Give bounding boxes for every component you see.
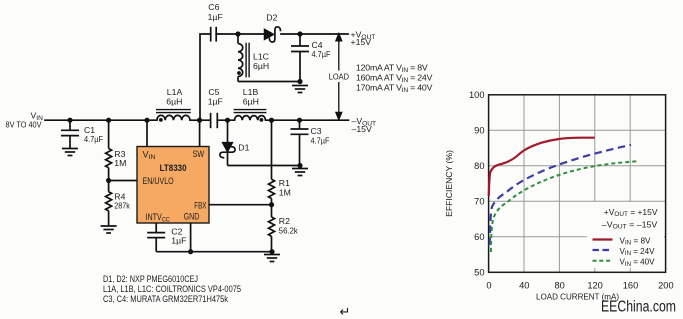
svg-text:FBX: FBX xyxy=(194,200,206,210)
node junction D1 top xyxy=(225,118,230,123)
capacitor C4 xyxy=(291,34,309,82)
svg-text:100: 100 xyxy=(469,90,485,100)
resistor R4 xyxy=(106,181,112,226)
svg-text:60: 60 xyxy=(474,232,484,242)
LOAD arrow xyxy=(336,34,342,120)
svg-text:↵: ↵ xyxy=(340,304,351,319)
svg-text:C6: C6 xyxy=(208,2,219,12)
svg-text:0: 0 xyxy=(486,281,491,291)
svg-text:200: 200 xyxy=(658,281,674,291)
svg-text:VIN = 40V: VIN = 40V xyxy=(620,258,656,268)
chart gridlines xyxy=(489,95,666,272)
wire bottom ground rail xyxy=(156,251,272,253)
node junction R3/R4/EN xyxy=(106,178,111,183)
wire EN/UVLO xyxy=(109,180,137,182)
svg-text:L1A, L1B, L1C: COILTRONICS VP4: L1A, L1B, L1C: COILTRONICS VP4-0075 xyxy=(103,284,241,294)
wire main rail C5 to L1B xyxy=(217,119,234,121)
resistor R3 xyxy=(106,120,112,180)
svg-text:50: 50 xyxy=(474,268,484,278)
node junction FBX xyxy=(269,202,274,207)
svg-text:LT8330: LT8330 xyxy=(160,163,187,173)
ground (C1) xyxy=(62,149,78,156)
svg-text:EN/UVLO: EN/UVLO xyxy=(143,176,174,186)
node junction VIN pin xyxy=(144,118,149,123)
svg-text:90: 90 xyxy=(474,126,484,136)
node junction R1 top xyxy=(269,118,274,123)
svg-text:287k: 287k xyxy=(114,201,130,211)
svg-text:4.7µF: 4.7µF xyxy=(84,134,103,144)
node junction GND pin xyxy=(188,249,193,254)
wire VIN pin riser xyxy=(146,120,148,146)
svg-text:4.7µF: 4.7µF xyxy=(312,49,331,59)
svg-text:8V TO 40V: 8V TO 40V xyxy=(6,120,42,130)
wire main rail VIN to L1A xyxy=(45,119,157,121)
capacitor C2 xyxy=(147,223,165,252)
svg-text:56.2k: 56.2k xyxy=(279,225,299,235)
svg-text:160: 160 xyxy=(623,281,639,291)
svg-text:+15V: +15V xyxy=(351,37,372,47)
ground (C4/L1C) xyxy=(292,86,308,93)
node junction R3 top xyxy=(106,118,111,123)
wire D1 cathode to ground rail xyxy=(228,165,301,167)
ground (R4) xyxy=(101,226,117,233)
node junction C3 bottom xyxy=(297,163,302,168)
svg-text:EEChina.com: EEChina.com xyxy=(601,299,676,316)
svg-text:40: 40 xyxy=(519,281,529,291)
curve VIN=40V (green dashed) xyxy=(491,161,639,252)
load current annotations xyxy=(356,62,433,94)
svg-text:GND: GND xyxy=(184,211,200,221)
svg-text:L1C: L1C xyxy=(253,52,269,62)
wire L1C bottom to ground xyxy=(238,81,300,83)
svg-text:1M: 1M xyxy=(279,188,291,198)
svg-text:L1A: L1A xyxy=(167,87,183,97)
curve VIN=8V (red) xyxy=(489,138,595,196)
svg-text:D1: D1 xyxy=(238,143,249,153)
curve VIN=24V (blue dashed) xyxy=(490,145,631,245)
svg-text:1µF: 1µF xyxy=(208,12,223,22)
node junction C3 top xyxy=(297,118,302,123)
svg-text:4.7µF: 4.7µF xyxy=(311,135,330,145)
svg-text:VIN = 24V: VIN = 24V xyxy=(620,247,656,257)
svg-text:6µH: 6µH xyxy=(253,61,269,71)
svg-text:+VOUT = +15V: +VOUT = +15V xyxy=(604,208,658,218)
chart legend background xyxy=(587,202,664,268)
svg-text:D1, D2: NXP PMEG6010CEJ: D1, D2: NXP PMEG6010CEJ xyxy=(103,274,198,284)
diode D1 xyxy=(223,120,232,165)
svg-text:L1B: L1B xyxy=(243,87,259,97)
svg-text:C3: C3 xyxy=(311,126,322,136)
inductor L1A xyxy=(156,110,191,121)
svg-text:1µF: 1µF xyxy=(171,236,186,246)
chart x-axis labels xyxy=(486,281,673,291)
svg-text:80: 80 xyxy=(555,281,565,291)
capacitor C6 xyxy=(211,27,217,42)
capacitor C1 xyxy=(61,120,79,148)
resistor R2 xyxy=(269,205,275,252)
wire top rail xyxy=(200,34,211,120)
svg-text:1M: 1M xyxy=(114,158,126,168)
chart border xyxy=(489,95,666,272)
svg-text:–VOUT = –15V: –VOUT = –15V xyxy=(602,220,658,230)
svg-text:C3, C4: MURATA GRM32ER71H475k: C3, C4: MURATA GRM32ER71H475k xyxy=(103,294,229,304)
svg-text:6µH: 6µH xyxy=(166,97,182,107)
svg-text:1µF: 1µF xyxy=(208,97,223,107)
wire SW riser xyxy=(199,120,201,146)
svg-text:VIN = 8V: VIN = 8V xyxy=(620,236,652,246)
node junction C4 top xyxy=(297,31,302,36)
svg-text:70: 70 xyxy=(474,197,484,207)
inductor L1B xyxy=(234,110,267,121)
svg-text:–15V: –15V xyxy=(352,124,372,134)
node VIN junction C1 xyxy=(67,118,72,123)
inductor L1C xyxy=(238,34,249,82)
svg-text:C5: C5 xyxy=(208,87,219,97)
svg-text:EFFICIENCY (%): EFFICIENCY (%) xyxy=(444,150,454,217)
svg-text:LOAD: LOAD xyxy=(329,71,349,81)
node junction C4 bottom xyxy=(297,79,302,84)
node junction R2 bottom xyxy=(269,249,274,254)
op-amp U1 LT8330 box xyxy=(137,147,209,224)
svg-text:170mA AT VIN = 40V: 170mA AT VIN = 40V xyxy=(356,82,433,94)
chart legend xyxy=(602,208,658,268)
svg-text:80: 80 xyxy=(474,161,484,171)
svg-text:D2: D2 xyxy=(266,12,277,22)
node junction SW xyxy=(197,118,202,123)
resistor R1 xyxy=(269,120,275,205)
capacitor C3 xyxy=(291,120,309,165)
wire FBX xyxy=(209,204,272,206)
ground (main) xyxy=(264,255,280,262)
chart y-axis labels xyxy=(469,90,485,278)
node junction L1C top xyxy=(235,31,240,36)
ground (C3/D1) xyxy=(292,169,308,176)
diode D2 xyxy=(265,30,274,40)
wire GND pin xyxy=(190,223,192,252)
wire main rail L1B to -VOUT xyxy=(266,119,349,121)
svg-text:120: 120 xyxy=(587,281,603,291)
wire main rail L1A to C5 xyxy=(190,119,211,121)
svg-text:6µH: 6µH xyxy=(243,97,259,107)
capacitor C5 xyxy=(211,113,218,128)
svg-text:SW: SW xyxy=(193,149,205,159)
